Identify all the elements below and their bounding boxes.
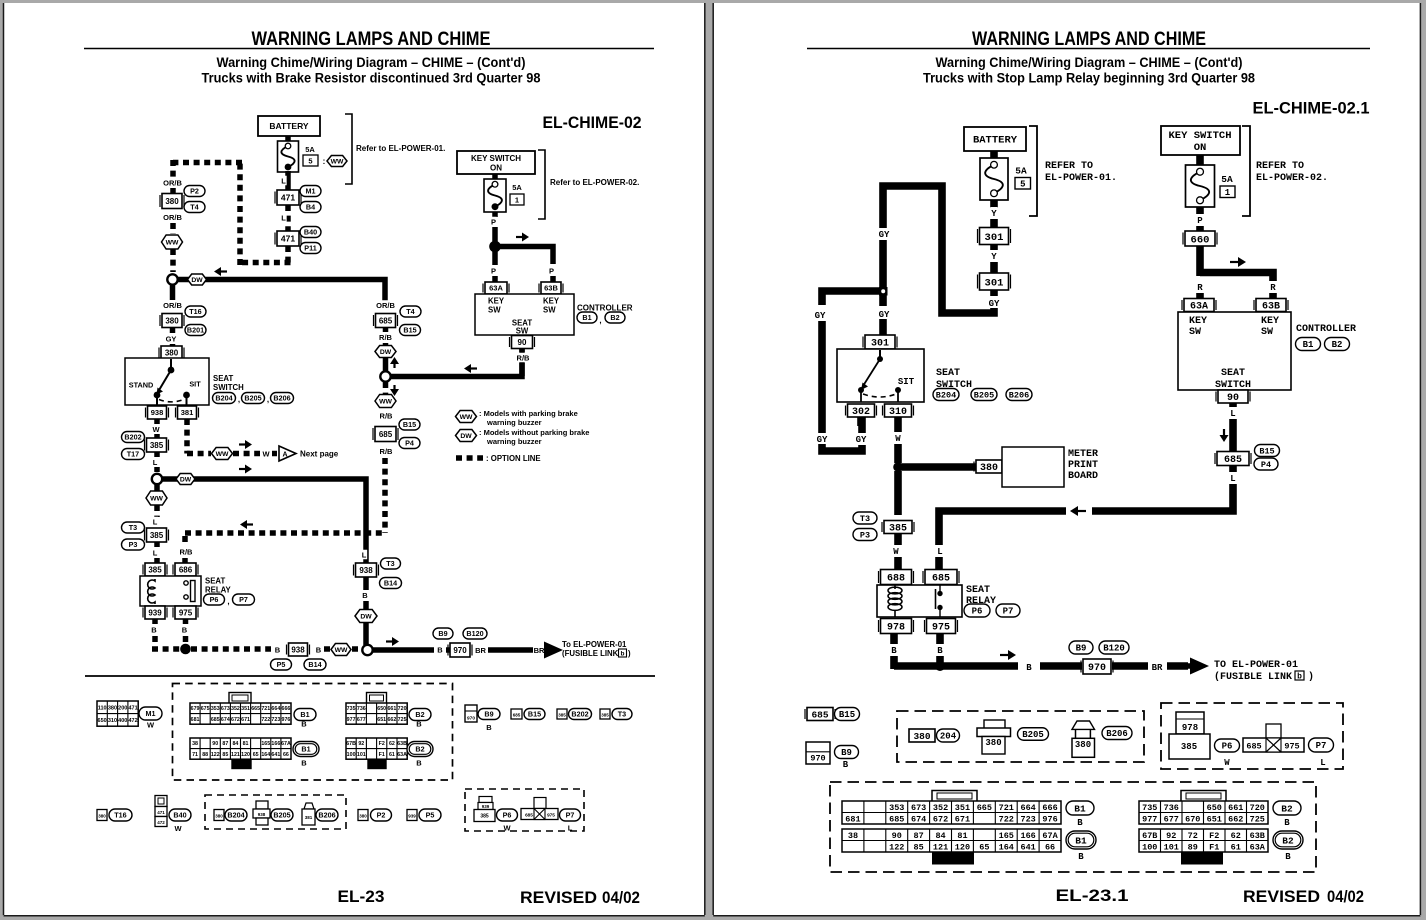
connector 686 at relay <box>175 563 196 576</box>
connector B2 bottom lock tab <box>368 760 386 769</box>
connector 63A <box>485 282 507 294</box>
svg-text:B9: B9 <box>841 748 852 758</box>
terminal oval B201 <box>185 325 206 336</box>
svg-text:63B: 63B <box>1250 831 1265 841</box>
connector B1 lock tab <box>932 853 974 865</box>
svg-text:P5: P5 <box>426 811 435 820</box>
connector 685x975 <box>534 798 546 809</box>
svg-text:R/B: R/B <box>380 447 394 456</box>
svg-text:B120: B120 <box>1103 644 1125 654</box>
svg-text:721: 721 <box>261 706 270 712</box>
junction circle bus <box>362 645 372 655</box>
wire battery to fuse <box>990 151 998 160</box>
svg-text:722: 722 <box>261 717 270 723</box>
svg-text:T4: T4 <box>406 307 414 316</box>
wire junction down <box>894 471 902 515</box>
svg-text:REVISED: REVISED <box>1243 888 1320 906</box>
svg-text:BR: BR <box>1152 663 1163 673</box>
svg-text:471: 471 <box>128 705 137 711</box>
svg-text:664: 664 <box>271 706 280 712</box>
svg-text:975: 975 <box>547 813 555 818</box>
flow arrow down beside wire <box>1223 429 1225 435</box>
wire stubs into 63A 63B <box>1196 293 1204 300</box>
wire battery to fuse <box>285 136 291 143</box>
svg-text:63A: 63A <box>1250 842 1266 852</box>
wire fuse to 660 <box>1196 207 1204 214</box>
svg-text:673: 673 <box>221 706 230 712</box>
svg-text:b: b <box>621 651 625 658</box>
terminal oval B1 right <box>1296 338 1321 351</box>
svg-text:166: 166 <box>1020 831 1035 841</box>
svg-text:B15: B15 <box>403 326 416 335</box>
svg-text:B: B <box>275 646 281 655</box>
option line bottom run <box>240 260 291 266</box>
svg-text:686: 686 <box>179 565 193 574</box>
terminal oval P5 <box>419 809 441 821</box>
connector B40 stack <box>155 796 167 807</box>
svg-text:(FUSIBLE LINK: (FUSIBLE LINK <box>562 649 619 658</box>
wire color L below 685 <box>1229 472 1236 483</box>
svg-text:381: 381 <box>305 815 313 820</box>
connector 385 at relay <box>145 563 165 576</box>
svg-text:CONTROLLER: CONTROLLER <box>577 304 633 313</box>
junction dot bus <box>180 644 191 655</box>
fuse 5A (5) <box>278 141 299 172</box>
connector 380 plug B205 <box>984 720 1005 729</box>
wire color L <box>152 457 158 467</box>
svg-text:Y: Y <box>991 252 997 262</box>
svg-text:STAND: STAND <box>129 381 154 390</box>
svg-text:SW: SW <box>516 327 529 336</box>
connector B2 lock tab <box>1181 853 1223 865</box>
terminal oval P4 <box>399 438 420 449</box>
svg-text:970: 970 <box>467 716 475 722</box>
svg-text:650: 650 <box>377 706 386 712</box>
connector B2 top tab <box>367 693 387 704</box>
terminal oval P2 <box>371 809 392 821</box>
seat switch common contact <box>168 367 175 374</box>
svg-text:90: 90 <box>518 338 527 347</box>
terminal oval B2 <box>409 709 431 721</box>
main wire circle to corner <box>178 280 385 303</box>
svg-text:P7: P7 <box>1003 607 1014 617</box>
seat relay coil right <box>894 585 896 589</box>
svg-text:B2: B2 <box>415 745 424 754</box>
wire circle down <box>170 285 176 300</box>
svg-text:200: 200 <box>118 705 127 711</box>
terminal oval T3 <box>381 558 401 569</box>
terminal oval B2 double table <box>1273 831 1303 849</box>
junction circle A2 <box>152 474 162 484</box>
terminal oval B15 right <box>1255 445 1280 457</box>
svg-text:B204: B204 <box>936 391 956 401</box>
fuse number box 5 <box>1015 178 1031 190</box>
svg-text:OR/B: OR/B <box>163 213 182 222</box>
branch wire to 63B right <box>1200 273 1273 282</box>
svg-text:674: 674 <box>221 717 230 723</box>
svg-text:,: , <box>599 316 601 325</box>
svg-text:385: 385 <box>148 565 162 574</box>
svg-text:380: 380 <box>215 814 223 819</box>
option symbol DW on drop <box>355 610 377 623</box>
svg-text:352: 352 <box>933 803 948 813</box>
svg-text:04/02: 04/02 <box>1327 888 1364 906</box>
svg-text:P6: P6 <box>972 607 983 617</box>
wire color GY above 301 <box>878 308 891 319</box>
connector 975 at relay right <box>927 619 956 634</box>
connector 685x975 key <box>1266 724 1281 739</box>
svg-text:F1: F1 <box>1209 842 1219 852</box>
svg-text:b: b <box>1297 673 1302 682</box>
wire 302 down <box>857 417 865 426</box>
svg-text:67B: 67B <box>346 741 356 747</box>
svg-text:DW: DW <box>460 433 472 440</box>
connector 685 (B15/P4) <box>375 427 396 442</box>
svg-text:938: 938 <box>258 812 266 817</box>
svg-text:671: 671 <box>955 814 970 824</box>
wire GY to 301 seat switch <box>879 295 887 306</box>
svg-text:R/B: R/B <box>379 333 393 342</box>
wire to junction dot <box>492 227 498 243</box>
option symbol WW <box>212 448 233 460</box>
svg-text:B1: B1 <box>1303 340 1314 350</box>
option drop to 686 <box>182 536 188 546</box>
refer bracket EL-POWER-02 right <box>1242 126 1250 216</box>
wire color OR/B <box>163 178 182 188</box>
svg-text:GY: GY <box>856 435 867 445</box>
svg-text:672: 672 <box>231 717 240 723</box>
svg-text:204: 204 <box>940 732 957 742</box>
svg-text:650: 650 <box>1207 803 1222 813</box>
svg-text:B206: B206 <box>1009 391 1029 401</box>
svg-text:5A: 5A <box>1015 166 1027 177</box>
svg-text:EL-23: EL-23 <box>338 888 385 906</box>
connector 978 385 stack <box>1176 712 1204 734</box>
connector 938 below seat switch <box>148 406 167 419</box>
bus dash to circle <box>352 646 360 652</box>
wire below 685 right <box>1229 465 1237 472</box>
connector 939 at relay <box>145 606 165 619</box>
connector 685 small <box>511 709 522 719</box>
svg-text:385: 385 <box>558 713 566 718</box>
connector 63B <box>541 282 561 294</box>
svg-text:100: 100 <box>347 752 356 758</box>
right page sheet <box>713 3 1422 916</box>
svg-text:88: 88 <box>202 752 208 758</box>
svg-text:T17: T17 <box>127 450 139 459</box>
svg-text:651: 651 <box>1207 814 1222 824</box>
svg-text:,: , <box>227 597 229 606</box>
connector 380 (T16/B201) <box>162 314 182 328</box>
svg-text:EL-POWER-02.: EL-POWER-02. <box>1256 173 1328 184</box>
wire color W below 385 <box>892 545 899 556</box>
svg-text:L: L <box>281 177 286 186</box>
svg-text:725: 725 <box>398 717 407 723</box>
svg-text:P4: P4 <box>1261 460 1271 470</box>
svg-text:685: 685 <box>379 430 393 439</box>
seat switch SIT contact right <box>895 387 901 393</box>
option symbol DW on wire <box>176 474 195 485</box>
svg-text:GY: GY <box>989 299 1000 309</box>
svg-text:63A: 63A <box>1190 302 1208 313</box>
wire color B before 938 <box>274 645 280 655</box>
svg-text:EL-CHIME-02: EL-CHIME-02 <box>543 113 642 132</box>
svg-text:warning buzzer: warning buzzer <box>486 418 542 427</box>
terminal oval B9 bus <box>1069 641 1093 654</box>
svg-text:81: 81 <box>957 831 967 841</box>
svg-text:1: 1 <box>1225 188 1231 198</box>
svg-text:81: 81 <box>243 741 249 747</box>
seat switch common stub <box>170 359 172 370</box>
svg-text:P: P <box>1197 216 1203 226</box>
svg-text:F2: F2 <box>379 741 385 747</box>
wire into 380 <box>170 344 176 347</box>
wire color BR bus <box>1151 661 1164 672</box>
terminal oval B202 <box>569 709 592 720</box>
wire down to junction square <box>879 240 887 288</box>
svg-text:92: 92 <box>358 741 364 747</box>
option line to junction <box>170 249 176 272</box>
svg-text:Next page: Next page <box>300 450 339 459</box>
svg-text:385: 385 <box>601 713 609 718</box>
option stub to 686 <box>182 558 188 563</box>
option line from 471 down <box>285 246 291 263</box>
flow arrow right <box>516 236 522 238</box>
wire color GY mid <box>878 228 891 239</box>
wire color L above 685 relay <box>936 545 943 556</box>
terminal oval B14 <box>304 659 326 670</box>
svg-text:B40: B40 <box>304 228 317 237</box>
svg-text:61: 61 <box>389 752 395 758</box>
seat relay box right <box>877 585 962 617</box>
svg-text:B: B <box>1285 852 1291 862</box>
terminal oval B204 right <box>933 389 959 401</box>
svg-text:B206: B206 <box>273 394 290 403</box>
terminal oval P7 key <box>1309 738 1334 752</box>
fuse 5A (5) right <box>980 158 1008 200</box>
svg-text:KEY: KEY <box>1261 316 1279 327</box>
meter print board box <box>1002 447 1064 487</box>
svg-text:975: 975 <box>932 623 950 634</box>
terminal oval B204 <box>213 393 236 404</box>
option wire into relay connector <box>154 558 160 563</box>
svg-text:166: 166 <box>271 741 280 747</box>
connector 380 trapezoid B206 <box>1072 721 1095 729</box>
svg-text:BR: BR <box>534 646 545 655</box>
svg-text:DW: DW <box>180 476 192 483</box>
svg-text:B201: B201 <box>187 326 204 335</box>
wire 975 down <box>936 633 944 644</box>
svg-text:P7: P7 <box>1316 741 1327 751</box>
connector 381 below seat switch <box>178 406 197 419</box>
option symbol WW on bus <box>331 644 351 656</box>
svg-text:301: 301 <box>871 339 889 350</box>
wire color B below 938 <box>363 577 369 590</box>
connector 685 key <box>807 708 833 721</box>
svg-text:380: 380 <box>165 197 179 206</box>
svg-text:L: L <box>153 518 158 527</box>
wire color L above 938 <box>361 550 367 560</box>
terminal oval B15 <box>524 709 545 720</box>
svg-text:WARNING LAMPS AND CHIME: WARNING LAMPS AND CHIME <box>972 28 1206 50</box>
terminal oval P2 <box>184 186 205 197</box>
connector 970 on bus <box>450 643 470 657</box>
connector 301 second <box>980 273 1009 290</box>
svg-text:380: 380 <box>913 731 930 742</box>
svg-text:W: W <box>895 434 901 444</box>
connector B1 tab top <box>932 791 977 802</box>
connector 302 <box>848 404 875 417</box>
svg-text:P2: P2 <box>190 187 199 196</box>
svg-text:T3: T3 <box>129 523 137 532</box>
svg-text:353: 353 <box>211 706 220 712</box>
svg-text:400: 400 <box>118 718 127 724</box>
svg-text::: : <box>323 157 326 166</box>
controller box <box>475 294 574 335</box>
terminal oval T17 <box>122 449 145 460</box>
svg-text:65: 65 <box>253 752 259 758</box>
wire fuse to connector 471 <box>285 171 291 190</box>
svg-text:BR: BR <box>475 646 486 655</box>
option wire down <box>154 505 160 517</box>
flow arrow left on wire <box>471 367 477 369</box>
to EL-POWER-01 arrow <box>544 647 545 653</box>
svg-text:Refer to EL-POWER-02.: Refer to EL-POWER-02. <box>550 178 639 187</box>
svg-text:T3: T3 <box>386 559 394 568</box>
svg-text:B15: B15 <box>1259 447 1274 457</box>
svg-text:Warning Chime/Wiring Diagram –: Warning Chime/Wiring Diagram – CHIME – (… <box>217 55 526 70</box>
wire color R/B <box>378 411 393 421</box>
svg-text:660: 660 <box>1191 234 1210 246</box>
wire color B after 938 <box>315 645 321 655</box>
connector table M1 <box>97 701 138 726</box>
svg-text:723: 723 <box>1020 814 1035 824</box>
svg-text:B: B <box>1077 818 1083 828</box>
svg-text:165: 165 <box>261 741 270 747</box>
svg-text:674: 674 <box>911 814 926 824</box>
refer bracket EL-POWER-01 <box>345 114 352 184</box>
terminal oval 204 <box>937 729 960 742</box>
terminal oval B15 key <box>835 708 860 721</box>
svg-text:1: 1 <box>515 196 519 205</box>
wire fuse down <box>492 212 498 217</box>
svg-text:5A: 5A <box>512 183 522 192</box>
svg-text:B1: B1 <box>301 745 310 754</box>
connector B2 grid bottom <box>1139 829 1268 852</box>
svg-text:W: W <box>893 547 899 557</box>
svg-text:B202: B202 <box>124 433 141 442</box>
svg-text:685: 685 <box>379 316 393 325</box>
connector 380 small <box>97 810 107 821</box>
wire color R/B <box>383 328 389 333</box>
svg-text:SWITCH: SWITCH <box>213 383 244 392</box>
option symbol WW <box>146 491 167 505</box>
svg-text:978: 978 <box>1182 723 1198 733</box>
svg-text:B120: B120 <box>466 629 483 638</box>
terminal oval P11 <box>300 243 321 254</box>
svg-text:T16: T16 <box>189 307 201 316</box>
svg-text:PRINT: PRINT <box>1068 460 1098 471</box>
svg-text:164: 164 <box>261 752 270 758</box>
svg-text:SEAT: SEAT <box>966 585 990 596</box>
terminal oval B9 key <box>835 746 859 759</box>
wire color B after circle <box>437 645 443 655</box>
svg-text:B202: B202 <box>571 710 588 719</box>
svg-text:BATTERY: BATTERY <box>269 121 309 131</box>
wire 938 down <box>154 419 160 424</box>
terminal oval B2 table <box>1273 801 1301 815</box>
terminal oval P4 right <box>1254 458 1278 470</box>
svg-text:WW: WW <box>331 158 344 165</box>
flow arrow right on bus <box>386 640 392 642</box>
connector 63B right <box>1256 299 1286 312</box>
connector 63A right <box>1184 299 1214 312</box>
svg-text:B204: B204 <box>227 811 244 820</box>
wire color OR/B <box>376 300 395 310</box>
svg-text:650: 650 <box>98 718 107 724</box>
wire 471 to 471 dashed <box>285 205 291 231</box>
wire color P <box>490 217 496 227</box>
svg-text:63B: 63B <box>544 284 558 293</box>
svg-text:38: 38 <box>192 741 198 747</box>
svg-text:B15: B15 <box>528 710 541 719</box>
ground bus dashed middle <box>191 646 271 652</box>
svg-text:5: 5 <box>308 157 312 166</box>
svg-text:P7: P7 <box>239 595 248 604</box>
wire color Y 2 <box>990 245 998 250</box>
svg-text:A: A <box>282 452 287 459</box>
svg-text:W: W <box>174 824 182 833</box>
wire color Y <box>990 207 997 218</box>
svg-text:M1: M1 <box>306 187 316 196</box>
svg-text:T4: T4 <box>190 203 198 212</box>
svg-text:671: 671 <box>241 717 250 723</box>
option wire down to crossover <box>382 458 388 533</box>
svg-text:90: 90 <box>892 831 902 841</box>
svg-text:SW: SW <box>543 306 556 315</box>
svg-text:To EL-POWER-01: To EL-POWER-01 <box>562 640 627 649</box>
seat switch dashed throw right <box>863 394 896 397</box>
svg-text:685: 685 <box>211 717 220 723</box>
fuse number box 1 <box>510 194 524 205</box>
svg-text:F2: F2 <box>1209 831 1219 841</box>
svg-text:WW: WW <box>379 398 392 405</box>
wire below 90 right <box>1229 403 1237 407</box>
terminal oval B14 <box>380 578 402 589</box>
svg-text:970: 970 <box>1088 663 1106 674</box>
svg-text:T3: T3 <box>618 710 626 719</box>
svg-text:KEY: KEY <box>488 297 505 306</box>
flow arrow left <box>221 270 227 272</box>
terminal oval P7 <box>233 594 255 605</box>
wire 660 down to branch <box>1196 246 1204 276</box>
wire color L below 90 <box>1229 407 1236 418</box>
svg-text:B205: B205 <box>244 394 261 403</box>
option symbol WW near fuse <box>327 156 347 167</box>
svg-text:670: 670 <box>1185 814 1200 824</box>
terminal oval B120 bus <box>1099 641 1129 654</box>
svg-text:GY: GY <box>815 311 826 321</box>
svg-text:B2: B2 <box>610 313 619 322</box>
svg-text:736: 736 <box>1164 803 1179 813</box>
svg-text:472: 472 <box>128 718 137 724</box>
connector 90 right <box>1218 390 1248 403</box>
svg-text:: OPTION LINE: : OPTION LINE <box>486 454 541 463</box>
terminal oval T16 <box>185 306 206 317</box>
svg-text:B2: B2 <box>1282 835 1294 846</box>
svg-text:EL-CHIME-02.1: EL-CHIME-02.1 <box>1253 99 1370 118</box>
wire color GY below 301 <box>990 290 998 296</box>
